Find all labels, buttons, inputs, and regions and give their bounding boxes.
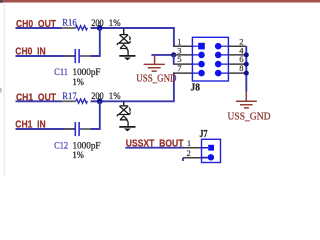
resistor R16 right pin lead xyxy=(91,27,96,29)
svg-text:1: 1 xyxy=(187,138,191,148)
top border dark red line xyxy=(2,0,320,3)
wire junction down to pin5 xyxy=(173,55,175,64)
connector J7 pad pin2 xyxy=(208,154,214,160)
junction node GND/J8 pin3/pin5 xyxy=(171,52,176,57)
capacitor C12 plates xyxy=(75,122,82,136)
junction node pin6/bus xyxy=(244,62,249,67)
connector J8 pad pin1 (square) xyxy=(198,43,205,50)
power port USS_GND right: stem xyxy=(245,92,247,102)
connector J7 body xyxy=(202,139,221,162)
svg-text:2: 2 xyxy=(187,148,191,158)
resistor R16 left pin lead xyxy=(62,27,76,29)
svg-text:1%: 1% xyxy=(73,78,84,88)
capacitor C11 left pin lead xyxy=(63,55,73,57)
power port USS_GND right: bars xyxy=(236,101,257,108)
connector J8 pin 3 stub xyxy=(174,54,193,56)
ground under diode D-CH1 xyxy=(119,126,135,128)
junction node CH0/C11 xyxy=(97,25,103,31)
svg-text:1%: 1% xyxy=(73,151,84,161)
left edge small gray mark xyxy=(0,88,1,92)
resistor R16 body xyxy=(76,26,88,30)
left faint sheet edge line xyxy=(3,3,6,177)
connector J8 pin 6 stub xyxy=(228,63,246,65)
connector J8 pin 7 stub xyxy=(173,72,192,74)
wire CH1 row from resistor to corner up to J8 pin7 xyxy=(91,73,174,101)
connector J7 pin 2 stub xyxy=(183,157,208,159)
svg-text:1000pF: 1000pF xyxy=(73,142,101,152)
sheet background xyxy=(0,0,320,176)
svg-text:7: 7 xyxy=(177,63,182,73)
TVS diode D-CH1 body (bidirectional zener) xyxy=(117,106,131,127)
wire J7 pin2 open tail xyxy=(182,158,184,161)
connector J8 pin 1 stub xyxy=(173,45,192,47)
connector J8 pad pin2 xyxy=(215,43,222,50)
junction node pin8/bus xyxy=(244,71,249,76)
svg-text:R17: R17 xyxy=(62,92,77,102)
connector J8 internal pad leads xyxy=(192,46,228,73)
wire CH0 row from resistor to corner xyxy=(91,28,174,46)
wire right bus pins 2-4-6-8 xyxy=(245,46,247,91)
junction node pin4/bus xyxy=(244,52,249,57)
svg-text:R16: R16 xyxy=(62,19,77,29)
svg-text:USS_GND: USS_GND xyxy=(228,111,271,122)
svg-text:1000pF: 1000pF xyxy=(73,68,101,78)
wire CH0_IN net stub xyxy=(16,55,76,57)
svg-text:C12: C12 xyxy=(54,141,68,151)
connector J8 pad pin8 xyxy=(215,70,222,77)
power port USS_GND left: wire xyxy=(151,54,171,56)
connector J8 pin 5 stub xyxy=(173,63,192,65)
connector J8 pad pin6 xyxy=(215,61,222,68)
TVS diode D-CH0 body (bidirectional zener) xyxy=(117,35,131,56)
svg-text:J7: J7 xyxy=(200,129,208,140)
wire CH1_IN net stub xyxy=(16,128,76,130)
capacitor C11 right pin lead xyxy=(82,55,91,57)
resistor R17 right pin lead xyxy=(91,100,96,102)
svg-text:C11: C11 xyxy=(54,68,68,78)
connector J8 pin 8 stub xyxy=(228,72,246,74)
wire USSXT_BOUT net xyxy=(125,147,184,149)
svg-text:J8: J8 xyxy=(191,82,201,94)
connector J8 pin 2 stub xyxy=(228,45,246,47)
resistor R17 left pin lead xyxy=(62,100,76,102)
wire C12 to junction xyxy=(90,101,99,130)
connector J7 pad pin1 (square) xyxy=(208,145,214,151)
connector J7 pin 1 stub xyxy=(184,147,208,149)
connector J7 internal pad leads xyxy=(202,148,208,158)
capacitor C12 left pin lead xyxy=(63,128,73,130)
TVS diode D-CH1 stem xyxy=(123,102,125,106)
connector J8 pad pin4 xyxy=(215,52,222,59)
connector J8 pad pin7 xyxy=(198,70,205,77)
wire CH0_OUT net stub xyxy=(16,27,62,29)
connector J8 pin 4 stub xyxy=(228,54,246,56)
capacitor C11 plates xyxy=(75,49,82,63)
capacitor C12 right pin lead xyxy=(82,128,91,130)
svg-text:8: 8 xyxy=(239,63,243,73)
resistor R17 body xyxy=(76,99,88,103)
top-left corner dark blob xyxy=(0,0,3,3)
junction node CH1/C12 xyxy=(97,98,103,104)
svg-text:USS_GND: USS_GND xyxy=(136,74,176,85)
ground under diode D-CH0 xyxy=(119,55,135,57)
connector J8 pad pin5 xyxy=(198,61,205,68)
power port USS_GND left: bars xyxy=(144,64,165,71)
wire CH1_OUT net stub xyxy=(16,100,62,102)
TVS diode D-CH0 stem xyxy=(123,29,125,35)
connector J8 pad pin3 xyxy=(198,52,205,59)
connector J8 body xyxy=(192,37,228,81)
power port USS_GND left: stem xyxy=(154,56,156,65)
wire C11 to junction xyxy=(90,28,99,57)
